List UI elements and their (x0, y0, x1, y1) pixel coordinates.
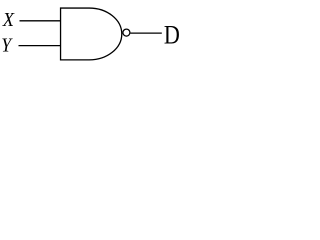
nand gate U1 body (61, 8, 122, 60)
wire output to D (130, 32, 162, 34)
svg-text:D: D (164, 22, 180, 50)
nand gate U1 inversion bubble (123, 29, 130, 36)
wire X input (20, 20, 62, 22)
svg-text:Y: Y (1, 34, 13, 56)
wire Y input (19, 45, 62, 47)
svg-text:X: X (2, 9, 15, 31)
